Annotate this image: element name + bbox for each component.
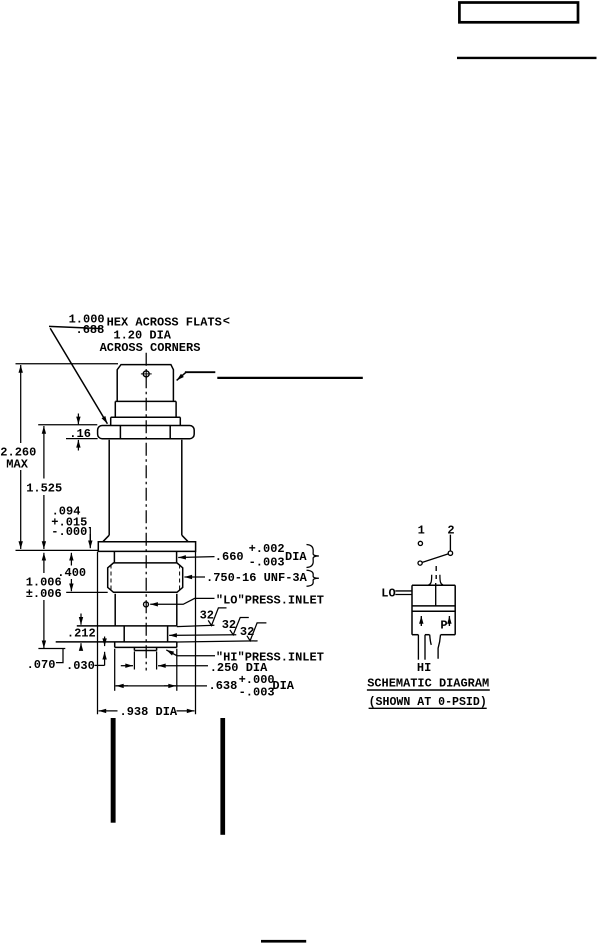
svg-text:1.525: 1.525 [26,482,62,496]
svg-text:HI: HI [417,661,431,675]
svg-text:ACROSS CORNERS: ACROSS CORNERS [100,341,201,355]
svg-text:LO: LO [381,587,395,601]
svg-text:<: < [223,315,230,329]
svg-text:MAX: MAX [6,457,28,471]
svg-text:.688: .688 [76,323,105,337]
svg-text:.070: .070 [27,658,56,672]
svg-text:.750-16 UNF-3A: .750-16 UNF-3A [206,571,308,585]
svg-text:32: 32 [200,609,214,623]
svg-text:.938 DIA: .938 DIA [120,705,178,719]
svg-text:SCHEMATIC DIAGRAM: SCHEMATIC DIAGRAM [367,677,489,691]
svg-text:P: P [440,619,447,633]
svg-text:32: 32 [240,625,254,639]
svg-text:32: 32 [222,618,236,632]
svg-text:.660: .660 [215,550,244,564]
svg-text:-.003: -.003 [249,556,285,570]
svg-text:.030: .030 [66,659,95,673]
svg-text:"LO"PRESS.INLET: "LO"PRESS.INLET [216,594,324,608]
svg-text:-.000: -.000 [51,525,87,539]
svg-text:.212: .212 [67,626,96,640]
svg-text:-.003: -.003 [239,686,275,700]
svg-text:DIA: DIA [272,679,294,693]
svg-text:DIA: DIA [285,550,307,564]
svg-text:HEX ACROSS FLATS: HEX ACROSS FLATS [107,315,222,329]
svg-text:(SHOWN AT 0-PSID): (SHOWN AT 0-PSID) [369,695,487,709]
svg-text:+.002: +.002 [249,542,285,556]
svg-text:.16: .16 [69,427,91,441]
svg-text:±.006: ±.006 [26,587,62,601]
svg-text:1: 1 [418,523,425,537]
svg-text:.638: .638 [209,679,238,693]
